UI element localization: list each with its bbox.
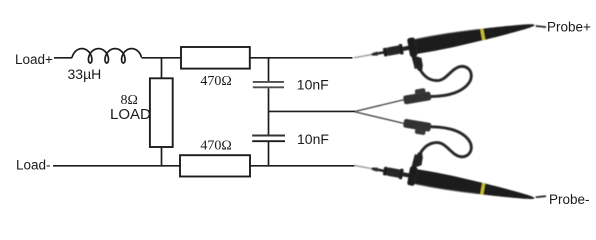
svg-text:470Ω: 470Ω bbox=[200, 74, 231, 89]
capacitor C1 10nF bbox=[253, 81, 284, 83]
resistor R LOAD 8ohm bbox=[150, 78, 173, 147]
wire middle to fork bbox=[269, 110, 356, 112]
svg-text:Probe-: Probe- bbox=[549, 192, 590, 207]
probe Probe- assembly (mirrored) bbox=[352, 112, 546, 208]
wire stub load bottom bbox=[161, 147, 163, 166]
svg-text:Probe+: Probe+ bbox=[547, 20, 591, 35]
wire cap column top bbox=[268, 58, 270, 81]
svg-text:LOAD: LOAD bbox=[110, 106, 151, 123]
inductor L1 33uH bbox=[72, 49, 141, 63]
resistor R1 470 top bbox=[181, 47, 250, 69]
svg-text:Load+: Load+ bbox=[15, 52, 53, 67]
svg-text:33µH: 33µH bbox=[68, 66, 102, 82]
svg-text:10nF: 10nF bbox=[297, 76, 329, 92]
wire cap column bottom bbox=[268, 142, 270, 166]
wire cap column mid bbox=[268, 88, 270, 134]
probe Probe+ assembly bbox=[352, 16, 546, 112]
capacitor C2 10nF bbox=[252, 135, 285, 137]
wire bottom bbox=[53, 165, 355, 167]
resistor R2 470 bottom bbox=[180, 155, 250, 176]
wire stub load top bbox=[161, 58, 163, 79]
wire top left bbox=[54, 57, 72, 59]
svg-text:470Ω: 470Ω bbox=[200, 138, 231, 153]
wire top mid (R right to probe tip) bbox=[250, 57, 353, 59]
svg-text:Load-: Load- bbox=[16, 158, 51, 173]
svg-text:10nF: 10nF bbox=[297, 131, 329, 147]
wire inductor to R top bbox=[142, 57, 182, 59]
